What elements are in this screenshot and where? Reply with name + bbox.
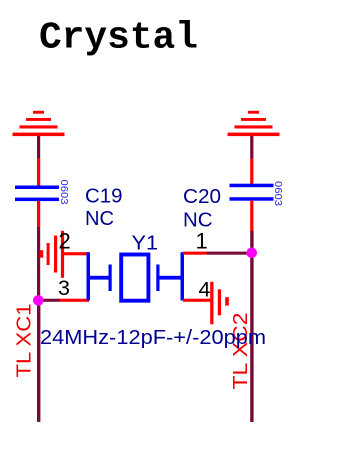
wire C19 to junction (maroon)	[37, 227, 40, 300]
crystal Y1	[88, 265, 181, 292]
svg-text:NC: NC	[85, 207, 114, 230]
svg-text:4: 4	[199, 278, 211, 302]
wire C19 pin2 lead (red)	[37, 201, 40, 227]
svg-text:Crystal: Crystal	[39, 17, 198, 60]
wire right bus down (maroon)	[250, 231, 253, 423]
svg-text:Y1: Y1	[132, 232, 159, 255]
capacitor C19 plates	[15, 186, 59, 202]
svg-text:3: 3	[58, 276, 70, 300]
ground for Y1 pin4 (rotated earth, points right)	[210, 282, 229, 325]
wire pin4 lead (red horizontal)	[183, 299, 211, 302]
wire C20 pin2 lead (red)	[250, 201, 253, 231]
ground GND2 (top right, rotated earth ground)	[228, 111, 280, 136]
wire pin2 lead (red horizontal)	[61, 252, 89, 255]
wire left bus down (maroon)	[37, 300, 40, 422]
svg-text:TL XC1: TL XC1	[13, 304, 36, 378]
node junction left (XC1)	[33, 295, 44, 306]
svg-text:0603: 0603	[272, 181, 284, 206]
crystal Y1 left connector (blue vertical)	[87, 252, 91, 300]
node junction right (XC2)	[246, 248, 257, 259]
wire GND2 to C20 (maroon segment)	[250, 136, 253, 159]
wire maroon bottom-left from junction	[39, 299, 61, 302]
ground for Y1 pin2 (rotated earth, points left)	[40, 231, 65, 278]
svg-text:C20: C20	[183, 185, 221, 208]
svg-text:2: 2	[59, 229, 71, 254]
capacitor C20 plates	[230, 184, 274, 201]
svg-text:0603: 0603	[58, 180, 70, 205]
crystal Y1 body rectangle	[121, 255, 148, 301]
crystal Y1 right connector (blue vertical)	[181, 252, 185, 300]
svg-text:TL XC2: TL XC2	[229, 313, 252, 390]
svg-text:NC: NC	[183, 209, 213, 232]
ground GND1 (top left, rotated earth ground)	[13, 111, 65, 136]
wire pin1 lead (red horizontal)	[183, 252, 207, 255]
wire pin1 to junction (maroon)	[207, 252, 252, 255]
wire C20 pin1 lead (red)	[250, 159, 253, 185]
svg-text:C19: C19	[85, 185, 123, 208]
wire C19 pin1 lead (red)	[37, 158, 40, 186]
wire GND1 to C19 (maroon segment)	[37, 136, 40, 158]
svg-text:24MHz-12pF-+/-20ppm: 24MHz-12pF-+/-20ppm	[40, 326, 266, 349]
svg-text:1: 1	[196, 229, 208, 254]
wire pin3 lead (red horizontal)	[60, 299, 89, 302]
